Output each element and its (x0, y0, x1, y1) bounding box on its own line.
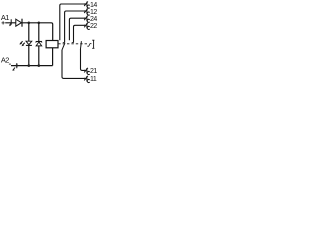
wire LED branch upper (28, 23, 30, 41)
wire A1 top rail to coil (5, 23, 53, 41)
wire A2 bottom rail (11, 65, 53, 67)
contact lever pole 1 (62, 43, 65, 50)
plug-in terminal symbol 14 (84, 1, 90, 8)
minus polarity mark (9, 63, 11, 65)
svg-text:24: 24 (90, 16, 97, 23)
plug-in terminal symbol 12 (84, 8, 90, 15)
node junction dot (LED branch, top) (28, 22, 31, 25)
wire contact 12 (NC of pole 1) (65, 11, 85, 43)
mechanical link squiggle (87, 44, 91, 47)
wire suppressor branch upper (38, 23, 40, 42)
svg-text:21: 21 (90, 68, 97, 75)
suppressor diode (Z-diode) (36, 41, 42, 43)
LED indicator (26, 41, 32, 45)
LED emission arrows (19, 41, 24, 46)
wire contact 14 (NO of pole 1) (60, 4, 85, 40)
plug-in terminal symbol 21 (84, 68, 90, 75)
plus polarity mark (2, 21, 5, 24)
wire suppressor branch lower (38, 46, 40, 66)
node junction dot (diode branch, bottom) (38, 64, 41, 67)
actuator bracket (92, 40, 94, 48)
svg-text:14: 14 (90, 2, 97, 9)
svg-text:A1: A1 (1, 13, 9, 22)
mechanical link (dashed) (58, 43, 88, 45)
plug-in terminal symbol A1 (9, 19, 12, 26)
diode D1 (series, polarity protection) (16, 19, 22, 26)
wire common 21 (pole 2) (81, 50, 85, 71)
plug-in terminal symbol 22 (84, 23, 90, 30)
plug-in terminal symbol 11 (84, 76, 90, 83)
svg-text:22: 22 (90, 23, 97, 30)
wire common 11 (pole 1) (62, 50, 85, 79)
contact lever pole 2 (80, 41, 81, 50)
node junction dot (diode branch, top) (38, 22, 41, 25)
wire contact 22 (NC of pole 2) (74, 25, 85, 42)
node junction dot (LED branch, bottom) (28, 64, 31, 67)
wire contact 24 (NO of pole 2) (69, 18, 85, 40)
plug-in terminal symbol 24 (84, 16, 90, 23)
relay coil K1 (46, 41, 58, 48)
plug-in terminal symbol A2 (12, 63, 16, 71)
svg-text:A2: A2 (1, 55, 9, 64)
svg-text:11: 11 (90, 76, 97, 83)
wire coil bottom lead (52, 48, 54, 66)
wire LED branch lower (28, 46, 30, 66)
